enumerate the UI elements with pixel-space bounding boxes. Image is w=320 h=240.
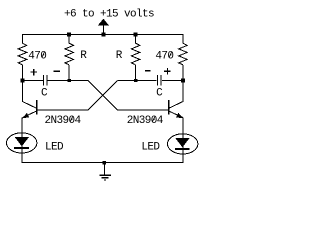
transistor Q1 emitter lead bbox=[23, 111, 37, 118]
resistor R2 "R" (left base resistor) bbox=[65, 43, 74, 65]
wire: right rail corner down to R4 bbox=[182, 35, 184, 44]
node D junction dot (right collector node) bbox=[181, 79, 185, 83]
wire: rail down to R2 bbox=[68, 35, 70, 44]
wire: left rail corner down to R1 bbox=[22, 35, 24, 44]
wire: node C to C2 left plate bbox=[117, 80, 156, 82]
svg-text:470: 470 bbox=[155, 50, 173, 62]
svg-text:2N3904: 2N3904 bbox=[127, 115, 164, 127]
junction dot on rail at R2 bbox=[67, 33, 71, 37]
node B junction dot (R2 bottom) bbox=[68, 79, 71, 82]
resistor R1 470 (left) bbox=[18, 43, 27, 65]
transistor Q1 collector lead bbox=[23, 102, 37, 109]
svg-text:LED: LED bbox=[141, 142, 160, 154]
transistor Q2 base bar bbox=[168, 100, 170, 114]
wire: node D down to Q2 collector bbox=[182, 81, 184, 103]
transistor Q2 collector lead bbox=[169, 102, 183, 109]
svg-text:2N3904: 2N3904 bbox=[45, 115, 82, 127]
wire: node A down to Q1 collector bbox=[22, 81, 24, 103]
transistor Q1 emitter arrow bbox=[22, 113, 29, 119]
wire: bottom rail bbox=[22, 162, 184, 164]
LED D1 circle bbox=[7, 133, 37, 153]
LED D2 cathode bar bbox=[175, 148, 190, 150]
wire: Q1 emitter down through LED D1 to bottom rail bbox=[21, 117, 23, 163]
wire: R1 bottom to node A bbox=[22, 65, 24, 81]
LED D2 triangle bbox=[175, 138, 190, 148]
wire: R4 bottom to node D bbox=[182, 65, 184, 81]
capacitor C1 minus sign bbox=[54, 70, 60, 72]
node A junction dot (left collector node) bbox=[21, 79, 25, 83]
LED D2 circle bbox=[168, 134, 198, 154]
node C junction dot (R3 bottom) bbox=[134, 79, 137, 82]
resistor R4 470 (right) bbox=[179, 43, 188, 65]
wire: top power rail bbox=[22, 34, 184, 36]
wire: C2 right plate to node D bbox=[162, 80, 183, 82]
junction dot V+ on rail bbox=[101, 33, 105, 37]
capacitor C2 plates bbox=[158, 75, 162, 86]
capacitor C1 plus sign bbox=[30, 69, 36, 75]
wire: R2 bottom to node B bbox=[68, 65, 70, 81]
LED D1 triangle bbox=[15, 137, 30, 147]
wire: rail down to R3 bbox=[135, 35, 137, 44]
wire: node A to C1 left plate bbox=[23, 80, 44, 82]
junction dot ground on bottom rail bbox=[103, 161, 106, 164]
svg-text:470: 470 bbox=[28, 50, 46, 62]
capacitor C2 plus sign bbox=[164, 68, 170, 74]
transistor Q2 base lead bbox=[118, 109, 168, 111]
wire: cross diagonal node C wire to Q1 base bbox=[88, 81, 118, 111]
junction dot on rail at R3 bbox=[134, 33, 138, 37]
svg-text:C: C bbox=[156, 87, 163, 99]
svg-text:LED: LED bbox=[45, 142, 64, 154]
transistor Q1 base lead bbox=[37, 109, 87, 111]
transistor Q2 emitter arrow bbox=[176, 113, 183, 119]
LED D1 cathode bar bbox=[14, 147, 29, 149]
svg-text:+6 to +15 volts: +6 to +15 volts bbox=[64, 9, 154, 21]
wire: R3 bottom to node C bbox=[135, 65, 137, 81]
resistor R3 "R" (right base resistor) bbox=[131, 43, 140, 65]
V+ supply arrow bbox=[98, 19, 109, 35]
capacitor C2 minus sign bbox=[145, 70, 151, 72]
ground symbol bbox=[99, 163, 110, 180]
svg-text:R: R bbox=[80, 50, 87, 62]
transistor Q1 base bar bbox=[36, 100, 38, 114]
svg-text:C: C bbox=[41, 87, 48, 99]
wire: cross diagonal node B wire to Q2 base bbox=[88, 81, 118, 111]
wire: Q2 emitter down through LED D2 to bottom rail bbox=[182, 117, 184, 163]
svg-text:R: R bbox=[116, 50, 123, 62]
transistor Q2 emitter lead bbox=[169, 111, 183, 118]
capacitor C1 plates bbox=[44, 75, 47, 86]
wire: C1 right plate to node B bbox=[48, 80, 88, 82]
slashed zero marks (bitmap font style) bbox=[42, 52, 172, 122]
